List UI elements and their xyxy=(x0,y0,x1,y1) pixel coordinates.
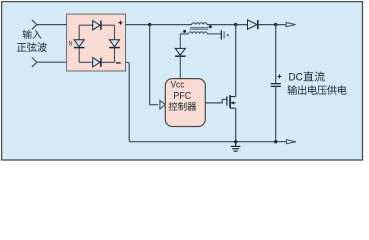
svg-text:N: N xyxy=(69,41,73,48)
label - (bridge negative) xyxy=(116,62,121,64)
label 控制器 (controller) xyxy=(169,102,178,111)
node sense tap xyxy=(148,23,151,26)
wire bridge loop left xyxy=(78,25,80,62)
input terminal arrow top xyxy=(32,20,37,29)
wire aux diode to controller Vcc xyxy=(179,56,181,78)
wire bridge loop bottom xyxy=(79,61,114,63)
inductor L1 aux winding xyxy=(188,32,207,34)
label 正弦波 (sine wave) xyxy=(17,43,26,51)
phase dot top winding xyxy=(209,25,212,28)
label + (bridge positive) xyxy=(119,21,123,25)
wire source xyxy=(235,108,237,142)
wire top input xyxy=(37,24,67,26)
controller input arrow xyxy=(160,100,165,109)
capacitor C1 aux xyxy=(221,30,228,39)
wire bottom rail xyxy=(130,141,286,143)
diode D4 bridge right xyxy=(109,40,120,48)
wire top rail diode to output xyxy=(258,24,286,26)
wire bridge loop top xyxy=(79,24,114,26)
svg-text:Vcc: Vcc xyxy=(171,79,185,89)
wire gate controller to MOSFET xyxy=(205,99,227,103)
wire bottom input xyxy=(37,61,67,63)
inductor L1 core xyxy=(190,28,208,30)
output arrow bottom xyxy=(286,140,295,144)
output arrow top xyxy=(286,23,295,27)
node output top xyxy=(274,23,277,26)
figure frame xyxy=(2,2,363,160)
svg-text:DC: DC xyxy=(289,71,303,83)
ground xyxy=(231,142,241,151)
phase dot aux winding xyxy=(183,30,186,33)
svg-text:PFC: PFC xyxy=(173,91,191,102)
bridge rectifier box BR1 xyxy=(67,14,126,71)
inductor L1 top winding xyxy=(192,23,207,25)
transistor Q1 MOSFET xyxy=(227,95,236,108)
wire drain xyxy=(235,25,237,97)
label 输入 (input) xyxy=(23,30,32,39)
wire bridge loop right xyxy=(114,25,116,62)
PFC controller U1 box xyxy=(165,79,205,127)
node source bottom xyxy=(234,140,237,143)
diode D6 boost xyxy=(248,20,258,29)
label + (output cap) xyxy=(278,74,282,78)
wire output node to capacitor xyxy=(275,25,277,84)
wire sense line to controller xyxy=(150,25,159,105)
diode D2 bridge bottom xyxy=(93,58,101,67)
node output bottom xyxy=(274,140,277,143)
diode D1 bridge top xyxy=(93,21,101,30)
wire top rail inductor to diode xyxy=(207,24,247,26)
capacitor C2 output xyxy=(271,84,281,87)
label 输出电压供电 xyxy=(288,85,298,95)
node drain tap xyxy=(234,23,237,26)
diode D3 bridge left xyxy=(74,40,85,48)
wire capacitor to bottom rail xyxy=(275,86,277,141)
wire aux winding to Vcc diode xyxy=(180,34,188,49)
diode D5 aux xyxy=(175,48,185,56)
input terminal arrow bottom xyxy=(32,58,37,67)
wire bridge negative drop xyxy=(126,62,132,141)
wire aux winding to capacitor xyxy=(207,33,221,35)
wire top rail bridge to inductor xyxy=(126,24,192,26)
